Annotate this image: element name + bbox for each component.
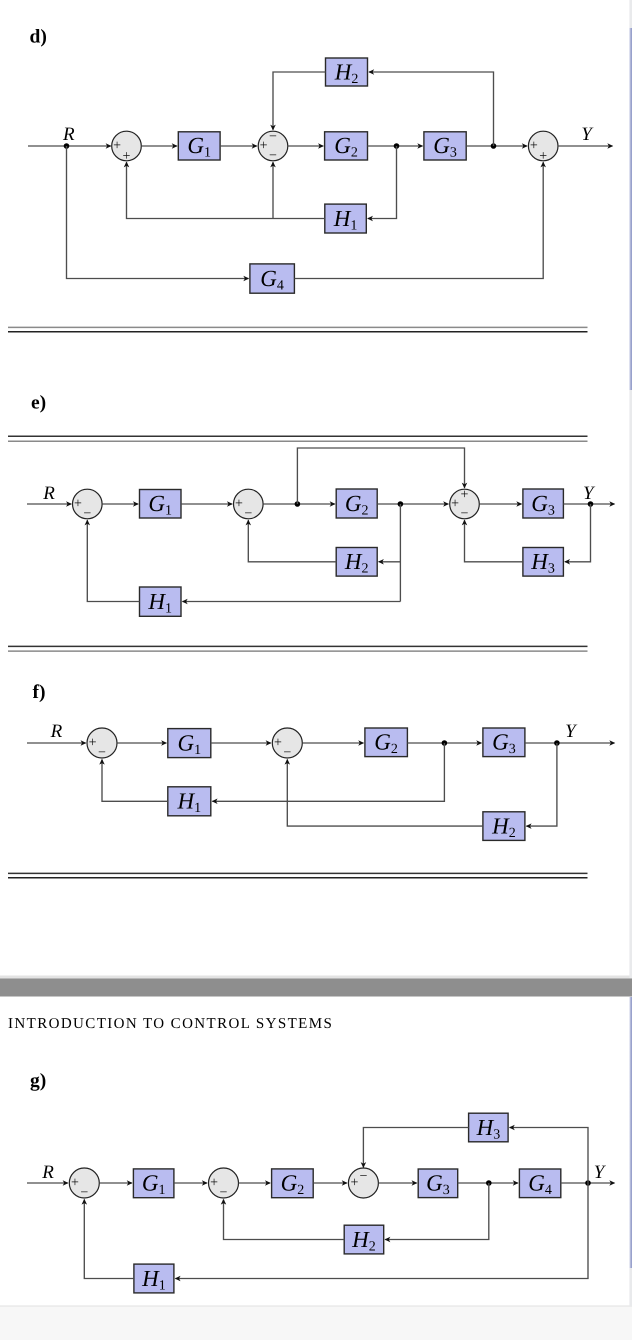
- summing junction S3e: [450, 488, 480, 522]
- label d): [30, 27, 47, 48]
- summing junction S3g: [348, 1168, 378, 1198]
- block H1 (g): [134, 1264, 174, 1293]
- svg-text:R: R: [50, 721, 63, 742]
- svg-text:+: +: [89, 736, 97, 751]
- label Y (g): [594, 1162, 607, 1183]
- wire: Y node down to H2 (f): [526, 743, 557, 826]
- wire: input R to sum S1f (f): [27, 742, 86, 744]
- wire: S1e to G1 (e): [102, 503, 138, 505]
- wire: G1 to sum S2d (d): [220, 145, 257, 147]
- wire: H1 to S1e bottom (e): [87, 520, 139, 601]
- wire: N2d up to H2 (d): [369, 72, 494, 146]
- label R (g): [41, 1162, 54, 1183]
- svg-text:−: −: [244, 506, 252, 521]
- wire: G3 to output Y (e): [563, 503, 614, 505]
- wire: G3 to G4 (g): [458, 1182, 518, 1184]
- wire: G1 to sum S2g (g): [174, 1182, 207, 1184]
- svg-text:R: R: [42, 483, 55, 504]
- block G2 (g): [272, 1169, 314, 1198]
- svg-text:−: −: [98, 745, 106, 760]
- wire: H2 to S2f bottom (f): [287, 760, 483, 827]
- svg-text:R: R: [62, 124, 75, 145]
- wire: G4 to output Y (g): [561, 1182, 615, 1184]
- summing junction S2f: [272, 728, 302, 760]
- block G1 (g): [133, 1169, 174, 1198]
- svg-text:INTRODUCTION TO CONTROL SYSTEM: INTRODUCTION TO CONTROL SYSTEMS: [8, 1016, 333, 1032]
- scrollbar thumb segment top: [629, 28, 632, 390]
- summing junction S1g: [69, 1168, 99, 1200]
- svg-text:+: +: [530, 139, 538, 154]
- right edge page border line (page 1): [629, 0, 632, 978]
- bottom page edge and background: [0, 1306, 632, 1340]
- node N1f after G2 (f): [442, 740, 448, 746]
- wire: S1d to G1 (d): [141, 145, 177, 147]
- svg-text:−: −: [269, 130, 277, 145]
- wire: input R to sum S1e (e): [27, 503, 71, 505]
- scrollbar thumb segment bottom: [629, 997, 632, 1268]
- svg-text:d): d): [30, 27, 47, 48]
- svg-text:−: −: [461, 506, 469, 521]
- svg-text:+: +: [74, 497, 82, 512]
- wire: H3 to S3g top (g): [363, 1128, 468, 1168]
- svg-text:−: −: [80, 1185, 88, 1200]
- block H2 (f): [483, 812, 525, 841]
- label R (f): [50, 721, 63, 742]
- divider rule: above e: [8, 436, 588, 441]
- wire: S3e to G3 (e): [479, 503, 521, 505]
- node N1d after G2 (d): [394, 143, 400, 149]
- block H3 (g): [469, 1113, 509, 1142]
- right edge page border line (page 2): [629, 997, 632, 1306]
- svg-text:−: −: [359, 1169, 367, 1184]
- wire: R node down to G4 (d): [67, 146, 249, 279]
- block H2 (e): [336, 548, 377, 577]
- block H2 (d): [326, 58, 368, 87]
- summing junction S2d: [258, 130, 288, 164]
- label Y (f): [565, 721, 578, 742]
- block G4 (d): [250, 264, 295, 293]
- svg-text:+: +: [260, 139, 268, 154]
- svg-text:f): f): [33, 682, 46, 703]
- wire: S2d to G2 (d): [288, 145, 323, 147]
- block G2 (d): [325, 132, 368, 161]
- wire: G2 to sum S3g (g): [313, 1182, 347, 1184]
- block G3 (f): [483, 728, 525, 757]
- label e): [31, 393, 46, 414]
- svg-text:+: +: [274, 736, 282, 751]
- wire: S1f to G1 (f): [117, 742, 166, 744]
- wire: H1 to S1g bottom (g): [84, 1200, 134, 1279]
- wire: input R to sum S1g (g): [27, 1182, 68, 1184]
- wire: H1 to S1f bottom (f): [102, 760, 168, 802]
- svg-text:g): g): [30, 1071, 46, 1092]
- wire: S2e to G2 (e): [263, 503, 335, 505]
- svg-text:+: +: [235, 497, 243, 512]
- node Y node (e): [588, 501, 594, 507]
- label header: [8, 1016, 333, 1032]
- svg-text:+: +: [210, 1176, 218, 1191]
- block G1 (e): [140, 490, 182, 519]
- block H1 (f): [168, 787, 211, 816]
- wire: G3 to sum S3d (d): [466, 145, 527, 147]
- label Y (e): [583, 483, 596, 504]
- wire: Y node down to H3 (e): [565, 504, 591, 562]
- svg-text:e): e): [31, 393, 46, 414]
- summing junction S3d: [528, 131, 558, 164]
- wire: G2 to G3 (d): [368, 145, 423, 147]
- wire: G2 to G3 (f): [407, 742, 481, 744]
- svg-text:−: −: [220, 1185, 228, 1200]
- node Y node (g): [585, 1180, 591, 1186]
- wire: N2e down vertical (e): [399, 504, 401, 602]
- block H3 (e): [523, 548, 564, 577]
- block G3 (e): [523, 489, 564, 518]
- block G1 (d): [178, 132, 220, 161]
- svg-text:+: +: [350, 1176, 358, 1191]
- label R (e): [42, 483, 55, 504]
- block G2 (e): [336, 489, 377, 518]
- node N1e branch before G2 (e): [295, 501, 301, 507]
- wire: G2 to sum S3e (e): [377, 503, 448, 505]
- node N2d after G3 (d): [491, 143, 497, 149]
- block G1 (f): [168, 729, 211, 758]
- node Y node (f): [554, 740, 560, 746]
- svg-text:+: +: [451, 497, 459, 512]
- block G4 (g): [519, 1169, 560, 1198]
- wire: N1g down to H2 (g): [385, 1183, 489, 1240]
- summing junction S1f: [87, 728, 117, 760]
- svg-text:+: +: [123, 149, 131, 164]
- node N1g after G3 (g): [486, 1180, 492, 1186]
- node N2e after G2 (e): [398, 501, 404, 507]
- summing junction S1d: [112, 131, 142, 164]
- svg-text:+: +: [539, 149, 547, 164]
- wire: Y node down to H1 (g): [175, 1183, 588, 1279]
- node R branch node (d): [64, 143, 70, 149]
- wire: G1 to sum S2e (e): [181, 503, 232, 505]
- svg-text:−: −: [83, 506, 91, 521]
- label f): [33, 682, 46, 703]
- wire: H2 to S2d top (d): [273, 72, 326, 130]
- svg-text:+: +: [461, 488, 469, 503]
- label g): [30, 1071, 46, 1092]
- wire: G4 to S3d bottom (d): [294, 162, 543, 278]
- wire: S2f to G2 (f): [302, 742, 363, 744]
- svg-text:−: −: [283, 745, 291, 760]
- svg-text:−: −: [269, 148, 277, 163]
- svg-text:+: +: [113, 139, 121, 154]
- wire: G1 to sum S2f (f): [211, 742, 271, 744]
- wire: S1g to G1 (g): [99, 1182, 131, 1184]
- gray separator band between pages: [0, 979, 632, 997]
- block H2 (g): [344, 1225, 384, 1254]
- summing junction S2e: [234, 489, 264, 521]
- divider rule: below d: [8, 327, 588, 331]
- wire: Y node up to H3 (g): [510, 1128, 588, 1184]
- wire: branch to H2 (e): [379, 561, 401, 563]
- page edge shadow above band: [0, 976, 632, 979]
- wire: branch H1 line to S2d bottom (d): [272, 162, 274, 218]
- wire: N1d down to H1 (d): [368, 146, 397, 219]
- wire: to H1 (e): [183, 601, 401, 603]
- summing junction S1e: [73, 489, 103, 521]
- wire: N1f down to H1 (f): [212, 743, 444, 801]
- block H1 (e): [140, 587, 182, 616]
- wire: H2 to S2e bottom (e): [248, 520, 336, 562]
- wire: S3d to output Y (d): [558, 145, 613, 147]
- label Y (d): [581, 124, 594, 145]
- block G2 (f): [365, 728, 408, 757]
- block G3 (g): [418, 1169, 458, 1198]
- svg-text:R: R: [41, 1162, 54, 1183]
- wire: N1e up over to S3e top (e): [297, 448, 464, 504]
- divider rule: below f: [8, 873, 588, 877]
- summing junction S2g: [209, 1168, 239, 1200]
- label R (d): [62, 124, 75, 145]
- wire: H3 to S3e bottom (e): [465, 520, 523, 562]
- wire: H1 to S1d bottom (d): [127, 162, 325, 218]
- divider rule: below e: [8, 646, 588, 651]
- wire: G3 to output Y (f): [525, 742, 615, 744]
- block G3 (d): [424, 132, 466, 161]
- wire: input R to sum S1d (d): [28, 145, 111, 147]
- block H1 (d): [325, 204, 367, 233]
- wire: S2g to G2 (g): [239, 1182, 271, 1184]
- wire: H2 to S2g bottom (g): [224, 1200, 345, 1240]
- wire: S3g to G3 (g): [379, 1182, 417, 1184]
- svg-text:+: +: [71, 1176, 79, 1191]
